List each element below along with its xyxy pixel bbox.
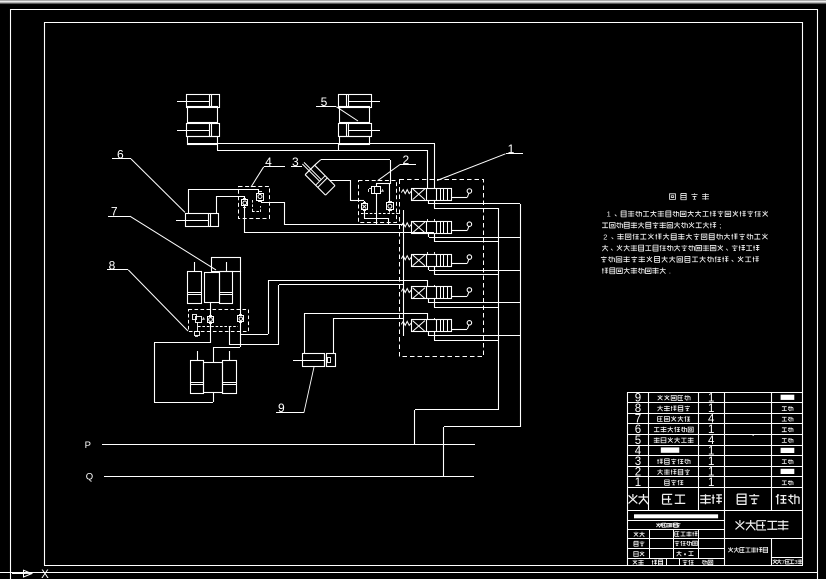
label 9 xyxy=(276,367,314,415)
pilot dashed link in block 4 xyxy=(252,200,261,212)
svg-text:X: X xyxy=(41,569,49,579)
svg-text:7: 7 xyxy=(782,560,785,566)
BOM row item 4 xyxy=(635,446,795,458)
directional valve bank row 3 xyxy=(401,252,471,268)
label 2 xyxy=(378,153,416,181)
wire right check down xyxy=(240,322,242,347)
pilot dashed links in block 8 xyxy=(198,322,241,327)
title block grid xyxy=(628,510,803,565)
wire lower legs center port up xyxy=(213,347,240,362)
svg-text:P: P xyxy=(85,440,91,451)
svg-text:4: 4 xyxy=(265,155,272,169)
wire right bus A to P xyxy=(415,208,499,444)
label 1 xyxy=(437,142,523,180)
wire bank row 2 to right buses xyxy=(429,234,521,242)
wire block8 to bank row4 line A xyxy=(240,280,428,335)
wire cyl6 port B to check block 4 xyxy=(217,196,246,214)
wire bank row 4 to right buses xyxy=(429,299,521,308)
cylinder 9 (push ram) xyxy=(293,354,336,368)
check valve 4 upper xyxy=(257,192,264,202)
directional valve bank row 5 xyxy=(401,318,471,334)
label 7 xyxy=(108,205,216,270)
wire block2 left check output xyxy=(364,210,389,225)
technical requirements paragraph xyxy=(601,210,768,276)
wire block4 lower output to bank row2 xyxy=(245,206,435,233)
drawing title: hydraulic system diagram xyxy=(736,520,789,530)
wire cyl9 port B to bank row5 xyxy=(334,318,404,354)
BOM header row xyxy=(629,494,799,504)
cylinder unit 5b (right pair of side-guard jacks) xyxy=(339,94,381,145)
svg-text:2: 2 xyxy=(603,233,607,242)
wire drop from unit 5b xyxy=(338,144,340,150)
cylinder unit 7 (upper leg props) xyxy=(187,258,241,304)
redacted name bar xyxy=(634,514,718,518)
svg-text:Q: Q xyxy=(86,472,93,483)
cylinder 6 (face-guard jack) xyxy=(176,214,219,228)
label 6 xyxy=(112,147,185,212)
check valve block 4 dashed enclosure xyxy=(239,187,270,219)
left gallery chain in valve bank xyxy=(403,210,405,336)
svg-text:1: 1 xyxy=(708,477,714,489)
BOM row item 6 xyxy=(635,424,793,436)
directional valve bank row 4 xyxy=(401,285,471,301)
check valve 4 lower xyxy=(242,199,248,208)
Q return line xyxy=(104,476,474,478)
svg-text:1: 1 xyxy=(635,477,641,489)
pilot dashed line in block 2 xyxy=(361,210,400,214)
BOM row item 2 xyxy=(635,467,795,479)
check valve block 2 dashed enclosure xyxy=(359,181,397,223)
check valve 8 right xyxy=(238,315,244,323)
valve bank dashed enclosure xyxy=(400,180,484,357)
BOM row item 9 xyxy=(635,392,795,404)
cylinder unit 5a (left pair of side-guard jacks) xyxy=(177,94,220,145)
BOM row item 1 xyxy=(635,477,793,489)
institution name xyxy=(728,547,767,552)
label 8 xyxy=(107,258,188,331)
cylinder 3 (front-beam jack, diagonal) xyxy=(302,162,335,195)
school name small text xyxy=(656,523,660,527)
label 5 xyxy=(316,95,358,121)
wire bank row 5 to right buses xyxy=(429,332,521,341)
pilot relief valve in block 2 xyxy=(369,187,384,195)
check valve 2 left xyxy=(362,203,368,211)
wire cyl3 rod port to block 2 xyxy=(330,180,365,203)
technical requirements title xyxy=(670,193,709,199)
wire pilot relief to top junction xyxy=(376,184,390,204)
wire cyl3 cap port to block 2 xyxy=(315,160,391,185)
wire bank row 1 to right buses xyxy=(429,200,521,209)
check valve 2 right xyxy=(387,202,394,211)
wire block2 center drain xyxy=(376,194,378,225)
wire leg block right port down xyxy=(240,271,242,315)
P supply line xyxy=(102,444,475,446)
wire bus1 from unit 5a to valve bank xyxy=(187,144,435,189)
BOM row item 8 xyxy=(635,403,793,415)
cylinder unit 7 (lower leg props) xyxy=(190,351,237,394)
svg-text:.: . xyxy=(669,267,671,276)
wire bus2 from unit 5a to valve bank xyxy=(217,144,428,188)
wire center check down to loop xyxy=(210,323,212,343)
wire block8 to bank row4 line B xyxy=(230,285,404,346)
svg-text:1: 1 xyxy=(508,142,515,156)
wire cyl6 port A to check block 4 xyxy=(189,189,260,214)
title block bottom row labels xyxy=(633,560,713,565)
check valve 8 center xyxy=(208,316,214,324)
wire right bus B to Q xyxy=(444,204,521,476)
sheet count text xyxy=(773,559,803,566)
label 4 xyxy=(251,155,285,187)
svg-text:3: 3 xyxy=(794,560,797,566)
UCS icon X axis arrow xyxy=(12,570,32,577)
wire leg block center port down xyxy=(210,302,212,316)
wire block4 upper output to bank row2 xyxy=(261,200,404,225)
title block small labels left xyxy=(634,531,698,556)
pilot-operated check block 8 dashed enclosure xyxy=(189,310,249,332)
wire left loop around lower legs xyxy=(154,343,214,403)
BOM row item 7 xyxy=(635,414,793,426)
BOM row item 3 xyxy=(635,456,793,468)
directional valve bank row 1 xyxy=(401,186,471,202)
svg-text:1: 1 xyxy=(607,210,611,219)
svg-text:8: 8 xyxy=(109,258,116,272)
svg-text:;: ; xyxy=(719,221,721,230)
directional valve bank row 2 xyxy=(401,219,471,235)
svg-text:6: 6 xyxy=(117,147,124,161)
wire cyl9 port A to bank row5 xyxy=(305,313,429,354)
label 3 xyxy=(291,155,302,169)
wire bank row 3 to right buses xyxy=(429,266,521,275)
stray dot in material column xyxy=(753,434,754,435)
pilot relief valve in block 8 xyxy=(193,315,205,337)
BOM row item 5 xyxy=(635,435,793,447)
BOM table grid xyxy=(628,392,804,565)
